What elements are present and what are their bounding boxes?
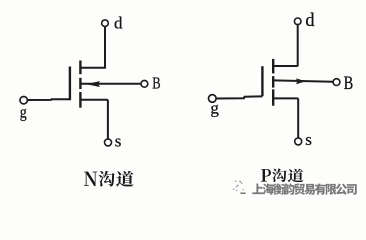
wire drain vertical (104, 27, 106, 69)
terminal d (102, 20, 109, 27)
wire body B (81, 83, 141, 85)
svg-text:g: g (20, 102, 27, 121)
terminal B (141, 80, 148, 87)
substrate arrow (points to channel, N-type) (86, 81, 100, 87)
svg-text:d: d (114, 13, 123, 32)
terminal s (295, 138, 302, 145)
terminal s (105, 139, 112, 146)
wire drain stub (273, 65, 297, 67)
wire drain stub (81, 67, 105, 69)
terminal g (209, 95, 217, 103)
svg-text:g: g (210, 99, 219, 118)
wire gate lead (216, 96, 262, 98)
terminal g (20, 97, 27, 104)
svg-text:d: d (305, 11, 315, 31)
substrate arrow (points away, P-type) (296, 78, 306, 84)
wire source stub (273, 97, 298, 99)
gate bar (261, 66, 263, 96)
svg-text:B: B (344, 74, 354, 94)
wire drain vertical (297, 25, 299, 67)
wire source vertical (297, 98, 299, 138)
svg-text:B: B (152, 74, 160, 93)
watermark logo (233, 180, 244, 191)
transistor Q2 P-channel MOSFET (216, 25, 333, 138)
channel segment (body) (272, 76, 274, 87)
channel segment (drain) (79, 61, 81, 75)
channel segment (source) (272, 89, 274, 105)
channel segment (body) (79, 78, 81, 89)
watermark text Shanghai company name (252, 183, 356, 195)
label N-channel (N沟道) (84, 171, 134, 187)
wire body B (274, 80, 333, 81)
transistor Q1 N-channel MOSFET (28, 27, 141, 139)
gate bar (69, 67, 71, 101)
label P-channel (P沟道) (261, 168, 303, 182)
terminal B (333, 79, 340, 86)
wire gate lead (28, 98, 70, 101)
wire source vertical (107, 100, 109, 139)
channel segment (drain) (272, 59, 274, 74)
terminal d (294, 18, 301, 25)
svg-text:s: s (305, 130, 312, 149)
wire source stub (81, 99, 108, 101)
svg-text:s: s (115, 132, 122, 151)
channel segment (source) (79, 92, 81, 108)
